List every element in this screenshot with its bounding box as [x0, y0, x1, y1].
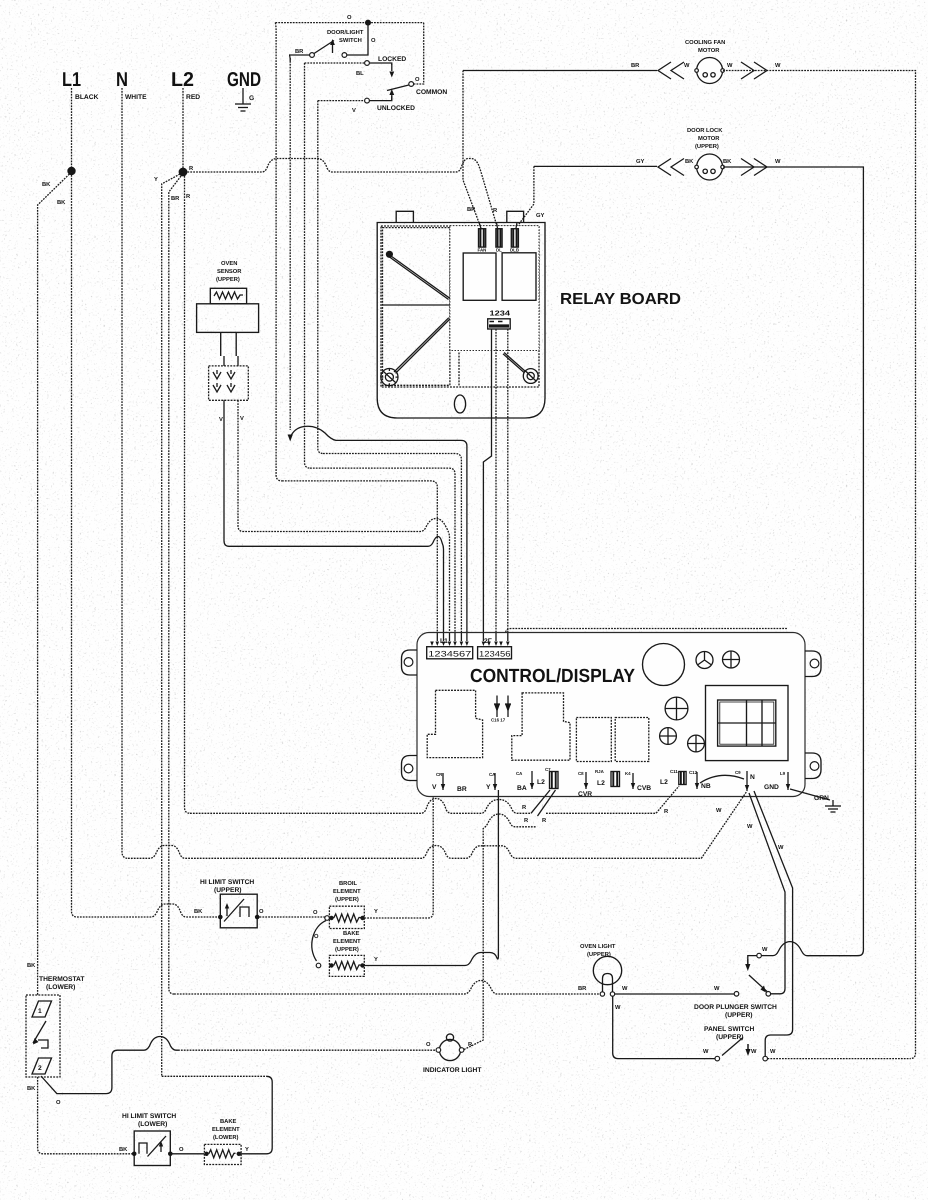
junction dot L1 [67, 167, 75, 175]
wire N column [122, 88, 128, 858]
contact bake O [316, 963, 321, 968]
svg-text:BK: BK [27, 963, 36, 969]
wire sensor leads [224, 356, 238, 366]
wire GY from door lock motor to relay [516, 166, 534, 228]
svg-text:ELEMENT: ELEMENT [333, 889, 361, 895]
svg-text:RJA: RJA [595, 769, 605, 774]
svg-text:W: W [747, 824, 753, 830]
wire door/light O column [275, 23, 282, 481]
junction broil O [325, 916, 330, 921]
svg-text:C11: C11 [670, 769, 678, 774]
connector block1 control [427, 647, 473, 659]
wire GND to GRN ground [790, 789, 830, 800]
svg-text:RELAY BOARD: RELAY BOARD [560, 291, 681, 308]
wire door/light BR column [289, 58, 291, 430]
svg-text:W: W [778, 845, 784, 851]
chevrons cooling fan right [741, 62, 767, 79]
wire BK branch from L1 [38, 172, 72, 995]
svg-text:INDICATOR LIGHT: INDICATOR LIGHT [423, 1067, 482, 1074]
svg-text:L2: L2 [597, 780, 605, 787]
svg-text:BK: BK [119, 1147, 128, 1153]
svg-text:V: V [219, 417, 223, 423]
pin L2 c [660, 769, 686, 786]
svg-text:Y: Y [486, 784, 491, 791]
wire cooling fan right to panel switch [723, 71, 916, 1059]
svg-text:(UPPER): (UPPER) [216, 276, 240, 283]
ear top-left [402, 650, 418, 675]
svg-text:W: W [714, 986, 720, 992]
svg-text:Y: Y [245, 1147, 249, 1153]
pin L2 b [595, 769, 620, 787]
wire L2 bus to relay (R) [187, 159, 497, 229]
arrowhead BR curve [288, 435, 293, 442]
wire BR column to oven light [174, 981, 600, 995]
oval hole [454, 395, 465, 413]
svg-text:W: W [775, 63, 781, 69]
svg-text:N: N [116, 69, 128, 91]
svg-text:O: O [426, 1041, 431, 1048]
svg-text:BLACK: BLACK [75, 94, 99, 101]
wire broil Y to V pin [364, 797, 433, 919]
control board outline [417, 633, 805, 797]
motor door lock [697, 154, 723, 180]
wire light W drop to panel switch [613, 996, 715, 1058]
wire bake lower return up [241, 1076, 272, 1154]
svg-text:BR: BR [171, 196, 180, 202]
wire thermostat 2 to indicator light [41, 1037, 178, 1094]
connector FAN on relay board [478, 229, 487, 253]
wire unlocked row [318, 100, 365, 102]
pin BA [516, 771, 534, 792]
wire cooling fan feed column BR [463, 71, 481, 229]
svg-text:1234567: 1234567 [428, 650, 472, 659]
wire stubs into connector block1 [437, 633, 467, 641]
wire door lock right return [723, 167, 863, 956]
svg-text:BR: BR [631, 63, 640, 69]
pin L2 a [537, 767, 558, 789]
switch door/light right contact [342, 53, 347, 58]
svg-text:O: O [179, 1146, 184, 1153]
svg-text:W: W [727, 63, 733, 69]
svg-text:MOTOR: MOTOR [698, 47, 720, 54]
wire BR to column [289, 55, 310, 61]
motor cooling fan [697, 58, 723, 84]
svg-text:CR: CR [436, 772, 443, 777]
wire L1 to hi limit upper with bump [77, 904, 218, 917]
svg-text:L9: L9 [780, 771, 786, 776]
svg-text:(UPPER): (UPPER) [695, 143, 719, 150]
switch door/light blade [314, 41, 334, 54]
svg-text:W: W [770, 1049, 776, 1055]
wire stubs into relay connectors [479, 223, 517, 229]
wire thermostat to light dotted [178, 1049, 436, 1051]
svg-text:C9: C9 [735, 770, 741, 775]
svg-text:GND: GND [227, 69, 261, 91]
wire sensor V right to control pin4 [238, 400, 450, 646]
wire plunger common to door lock return [761, 942, 858, 956]
svg-text:Y: Y [374, 909, 378, 915]
junction dot on top wire [365, 20, 371, 26]
svg-text:Y: Y [374, 957, 378, 963]
wire locked BL to control pin5 [310, 468, 455, 646]
relay 2 [502, 253, 536, 300]
wire panel right to cooling fan return [768, 1058, 911, 1060]
svg-text:CA: CA [489, 772, 496, 777]
wire relay pin1 to control [483, 329, 491, 641]
svg-text:BK: BK [685, 159, 694, 165]
wire BK column to hi limit lower [38, 1077, 132, 1154]
svg-text:CVR: CVR [578, 791, 592, 798]
switch lock blade [387, 85, 409, 91]
connector oven sensor plug [209, 366, 249, 400]
svg-text:L2: L2 [537, 779, 545, 786]
svg-text:O: O [415, 76, 420, 83]
wire Y branch [162, 174, 180, 1076]
svg-text:SENSOR: SENSOR [217, 268, 242, 275]
svg-text:C8: C8 [578, 771, 584, 776]
svg-text:O: O [313, 909, 318, 916]
arrowhead top dotted [503, 639, 508, 645]
svg-text:O: O [347, 14, 352, 21]
buzzer circle [643, 644, 685, 686]
svg-text:DLB: DLB [510, 248, 519, 253]
svg-text:L1: L1 [62, 69, 81, 91]
ground symbol GRN [825, 800, 841, 812]
ear bottom-left [402, 756, 418, 781]
hi limit switch upper [220, 894, 257, 928]
wire door/light BR curve to control pin7 [290, 426, 467, 646]
wire N pin diagonal 2 to panel switch [754, 791, 793, 1056]
wire L1 column [72, 88, 78, 917]
svg-text:BK: BK [27, 1086, 36, 1092]
arrow locked down [391, 64, 393, 71]
svg-text:V: V [432, 784, 437, 791]
strut top-left with rivet [386, 251, 393, 258]
wire L2 column stub [182, 88, 184, 168]
svg-text:C7: C7 [545, 767, 551, 772]
thermostat contact 2 [32, 1058, 52, 1074]
svg-text:ELEMENT: ELEMENT [333, 939, 361, 945]
rect component 1 [576, 718, 611, 762]
ear bottom-right [805, 753, 821, 779]
wire common to top [414, 23, 424, 84]
svg-text:CA: CA [516, 771, 523, 776]
svg-text:W: W [751, 1049, 757, 1055]
svg-text:(UPPER): (UPPER) [335, 946, 359, 953]
svg-text:G: G [249, 95, 254, 102]
svg-text:SWITCH: SWITCH [339, 37, 362, 44]
thermostat step [38, 1040, 48, 1048]
relay board left panel divider [383, 304, 450, 306]
pin NB [689, 770, 711, 790]
svg-text:C16 17: C16 17 [491, 718, 506, 723]
svg-text:OVEN LIGHT: OVEN LIGHT [580, 943, 616, 950]
panel switch [715, 1038, 768, 1061]
resistor broil element upper [329, 906, 364, 928]
svg-text:FAN: FAN [478, 248, 487, 253]
svg-text:RED: RED [186, 94, 200, 101]
connector 1234 on relay board [488, 319, 511, 329]
strut bottom-right [503, 353, 526, 373]
thermostat contact 1 [32, 1001, 52, 1017]
svg-text:1234: 1234 [490, 309, 511, 318]
arrow unlocked up [391, 96, 393, 100]
resistor oven sensor [210, 288, 246, 304]
rect component 2 [615, 718, 649, 762]
svg-text:PANEL SWITCH: PANEL SWITCH [704, 1026, 754, 1033]
connector block2 control [478, 647, 512, 659]
svg-text:GY: GY [536, 212, 545, 219]
svg-text:THERMOSTAT: THERMOSTAT [39, 976, 85, 983]
contact COMMON [409, 82, 414, 87]
wire top dotted into control block2 [506, 629, 789, 642]
wire unlocked to arm [369, 94, 391, 101]
pin BR [457, 786, 467, 793]
wire locked to lock arm [369, 63, 391, 65]
wire stubs into connector block2 [483, 633, 507, 641]
svg-text:COOLING FAN: COOLING FAN [685, 39, 725, 46]
junction dot L2 [179, 168, 188, 177]
hi limit switch lower [134, 1131, 170, 1166]
circle cross mid3 [688, 735, 705, 752]
wire bake Y to Y pin [364, 790, 498, 966]
screw bottom-right [523, 369, 538, 384]
svg-text:HI LIMIT SWITCH: HI LIMIT SWITCH [122, 1113, 176, 1120]
svg-text:(LOWER): (LOWER) [213, 1134, 239, 1141]
svg-text:(UPPER): (UPPER) [214, 887, 242, 894]
svg-text:CVB: CVB [637, 785, 651, 792]
svg-text:BR: BR [457, 786, 467, 793]
svg-text:BL: BL [356, 71, 364, 77]
svg-text:LOCKED: LOCKED [378, 56, 406, 63]
wire door lock motor left GY [534, 165, 657, 167]
svg-text:2: 2 [38, 1065, 42, 1072]
terminal dots hi limit lower [132, 1152, 137, 1157]
oven sensor neck [221, 332, 237, 356]
connector 3 on relay board [510, 229, 519, 253]
svg-text:W: W [762, 947, 768, 953]
relay board left panel [383, 228, 450, 386]
svg-text:DOOR/LIGHT: DOOR/LIGHT [327, 29, 364, 36]
arrowhead relay pin1 [481, 640, 486, 646]
svg-text:COMMON: COMMON [416, 89, 447, 96]
svg-text:W: W [775, 159, 781, 165]
chevrons door lock right [741, 159, 767, 176]
oven sensor body [197, 304, 259, 333]
wire dotted L2 link to L2c pin [546, 786, 679, 813]
svg-text:W: W [622, 986, 628, 992]
resistor bake element upper [329, 955, 364, 976]
svg-text:ELEMENT: ELEMENT [212, 1127, 240, 1133]
ground symbol GND [235, 88, 251, 111]
door plunger switch [734, 953, 770, 996]
pin Y [486, 772, 497, 791]
divider dashed bottom [458, 353, 460, 387]
ear top-right [805, 651, 821, 677]
pin CVR [578, 771, 592, 798]
display window outer [706, 686, 789, 761]
svg-text:CONTROL/DISPLAY: CONTROL/DISPLAY [470, 666, 635, 687]
svg-text:(UPPER): (UPPER) [335, 896, 359, 903]
svg-text:DOOR LOCK: DOOR LOCK [687, 127, 723, 134]
wire 830 L2 to indicator light [464, 814, 536, 1050]
wire relay pin3 to control [506, 329, 511, 646]
pin GND [764, 771, 790, 791]
svg-text:(UPPER): (UPPER) [587, 951, 611, 958]
strut bottom-left [394, 318, 450, 374]
relay board casing [377, 211, 545, 418]
wire Y column to bake return dotted [162, 1075, 267, 1077]
pin arrows into block2 [482, 642, 510, 647]
pin K4 CVB [625, 771, 651, 792]
svg-text:MOTOR: MOTOR [698, 135, 720, 142]
wire curve broil to bake [312, 921, 326, 962]
svg-text:(LOWER): (LOWER) [46, 984, 75, 991]
wire door/light switch top O wire [275, 22, 423, 24]
svg-text:L2: L2 [171, 69, 194, 91]
svg-text:BK: BK [194, 909, 203, 915]
svg-text:GRN: GRN [814, 795, 829, 802]
svg-text:W: W [716, 808, 722, 814]
terminal dots hi limit upper [218, 915, 223, 920]
svg-text:W: W [684, 63, 690, 69]
circle cross mid2 [660, 728, 677, 745]
svg-text:123456: 123456 [479, 650, 511, 659]
wire sensor V left to control pin3 [224, 400, 444, 646]
thermostat blade [33, 1021, 46, 1043]
svg-text:V: V [352, 108, 356, 114]
svg-text:BR: BR [467, 207, 476, 213]
svg-text:O: O [56, 1099, 61, 1106]
svg-text:BA: BA [517, 785, 527, 792]
svg-text:O: O [371, 37, 376, 44]
svg-text:BK: BK [57, 200, 66, 206]
pin V [432, 772, 445, 791]
wire door/light unlocked column [318, 101, 323, 454]
relay 1 [463, 253, 496, 300]
svg-text:GY: GY [636, 158, 645, 165]
pin arrows into block1 [430, 642, 469, 647]
svg-text:BR: BR [578, 986, 587, 992]
wire from dot to switch common [347, 23, 368, 55]
wire R diagonal 2 to L2a pin [538, 790, 556, 816]
small circle cross [723, 651, 740, 668]
svg-text:DOOR PLUNGER SWITCH: DOOR PLUNGER SWITCH [694, 1004, 777, 1011]
thermostat lower box [26, 995, 60, 1077]
svg-text:W: W [703, 1049, 709, 1055]
connector 2 on relay board [496, 229, 502, 253]
svg-text:O: O [314, 933, 319, 940]
wire locked row [305, 62, 365, 64]
wire A L2 bus below board [190, 799, 531, 814]
svg-text:Y: Y [154, 177, 158, 183]
small circle spoke [696, 652, 713, 669]
contact UNLOCKED [365, 98, 370, 103]
svg-text:BR: BR [295, 49, 304, 55]
wire cooling fan left [463, 70, 657, 72]
relay outline left on board [427, 690, 482, 757]
wire R column [185, 176, 191, 813]
wire relay pin2 to control [494, 329, 499, 646]
indicator light [436, 1034, 464, 1061]
display window inner grid [718, 700, 776, 746]
wire door/light locked column [305, 63, 311, 468]
diode arrows [491, 696, 511, 723]
svg-text:1: 1 [38, 1008, 42, 1015]
wire door/light O wire to control pin2 [282, 481, 437, 646]
switch door/light actuator arrow [332, 44, 334, 53]
svg-text:O: O [259, 908, 264, 915]
relay outline mid on board [512, 693, 570, 760]
wire hi limit lower to bake [173, 1153, 205, 1155]
svg-text:N: N [750, 774, 755, 781]
svg-text:C12: C12 [689, 770, 698, 775]
chevrons door lock left [658, 159, 684, 176]
chevrons cooling fan left [658, 62, 684, 79]
svg-text:DL: DL [496, 248, 502, 253]
svg-text:BAKE: BAKE [343, 931, 360, 937]
contact LOCKED [365, 61, 370, 66]
wire hi limit to broil junction [260, 916, 326, 918]
circle cross mid1 [665, 697, 688, 720]
svg-text:(LOWER): (LOWER) [138, 1121, 167, 1128]
switch door/light left contact BR [310, 53, 315, 58]
svg-text:WHITE: WHITE [125, 94, 147, 101]
svg-text:K4: K4 [625, 771, 631, 776]
wire unlocked V to control pin6 [323, 454, 461, 647]
svg-text:BROIL: BROIL [339, 880, 357, 887]
svg-text:UNLOCKED: UNLOCKED [377, 105, 415, 112]
svg-text:L2: L2 [660, 779, 668, 786]
wire BR branch [169, 176, 181, 994]
svg-text:BAKE: BAKE [220, 1119, 237, 1125]
svg-text:BK: BK [42, 182, 51, 188]
svg-text:GND: GND [764, 784, 779, 791]
wire R diagonal to L2a pin [531, 790, 550, 813]
svg-text:NB: NB [701, 783, 711, 790]
svg-text:OVEN: OVEN [221, 260, 237, 267]
svg-text:V: V [240, 416, 244, 422]
screw bottom-left [381, 369, 398, 386]
oven light [593, 956, 621, 996]
relay board inner rect [381, 226, 539, 387]
svg-text:HI LIMIT SWITCH: HI LIMIT SWITCH [200, 879, 254, 886]
wire N pin diagonal 1 to plunger [749, 793, 785, 994]
wire light to plunger [615, 993, 734, 995]
wire B neutral bus [128, 791, 747, 858]
svg-text:(UPPER): (UPPER) [725, 1012, 753, 1019]
svg-text:W: W [615, 1005, 621, 1011]
relay board white area [450, 226, 539, 351]
pin N [700, 770, 755, 791]
svg-text:BK: BK [723, 159, 732, 165]
resistor bake element lower [204, 1144, 241, 1164]
